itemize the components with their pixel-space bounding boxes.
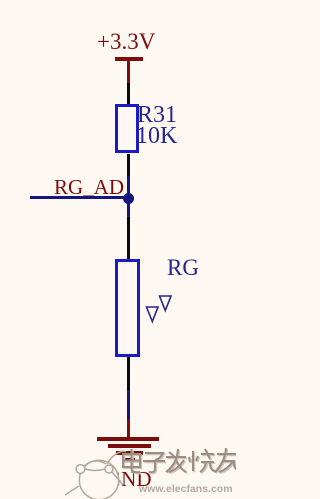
wire to ground [127, 390, 130, 420]
ground GND label [106, 467, 152, 492]
pin RG.2 [127, 357, 130, 391]
logo swirl [65, 451, 126, 499]
pin RG.1 [127, 217, 130, 262]
ground bar 2 [108, 444, 151, 448]
label R31 [137, 102, 177, 129]
svg-text:www.elecfans.com: www.elecfans.com [138, 483, 233, 495]
ground bar 3 [116, 451, 143, 455]
wire RG_AD horizontal [30, 196, 129, 199]
power +3.3V label [97, 29, 155, 55]
resistor R31 body [115, 104, 139, 153]
pin R31.2 [127, 154, 130, 177]
ground bar 4 [124, 458, 135, 462]
value 10K [136, 123, 177, 150]
CJK watermark approx [124, 449, 239, 473]
photoresistor RG body [115, 259, 140, 357]
power +3.3V stem [127, 60, 130, 83]
photoresistor light arrows [140, 290, 180, 330]
label RG [167, 255, 199, 281]
power +3.3V bar [115, 57, 143, 61]
ground bar 1 [97, 437, 159, 441]
junction dot [123, 193, 134, 204]
pin R31.1 [127, 83, 130, 105]
wire junction vertical [127, 176, 130, 218]
node RG_AD label [54, 175, 124, 200]
ground stem [127, 419, 130, 438]
